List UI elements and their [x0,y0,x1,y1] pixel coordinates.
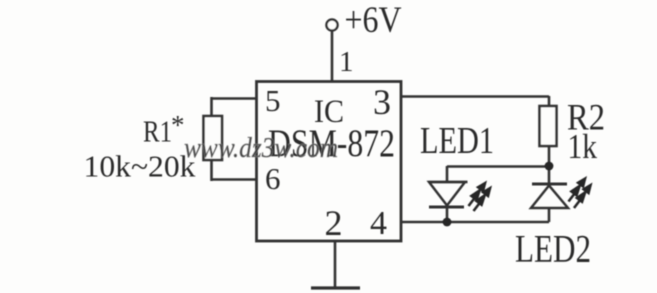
svg-text:1k: 1k [568,127,598,166]
svg-text:LED2: LED2 [515,228,591,271]
svg-text:3: 3 [373,82,391,122]
svg-text:www.dz3w.com: www.dz3w.com [184,133,338,164]
svg-text:1: 1 [339,46,354,78]
svg-text:4: 4 [370,205,387,242]
svg-text:LED1: LED1 [420,120,494,162]
svg-text:6: 6 [265,161,281,196]
svg-text:10k~20k: 10k~20k [84,149,197,184]
svg-text:5: 5 [265,83,281,118]
svg-text:+6V: +6V [345,0,402,41]
svg-text:R1: R1 [143,114,172,149]
svg-text:2: 2 [325,203,343,243]
svg-text:*: * [171,110,185,140]
